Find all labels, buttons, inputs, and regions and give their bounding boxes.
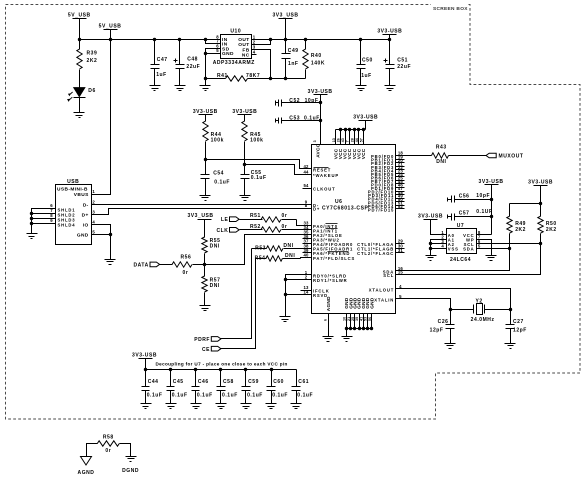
regulator U10 ADP3334ARMZ (221, 35, 252, 59)
wire R44 to U6 (206, 160, 312, 169)
ground U7 WP (486, 255, 497, 257)
U10 pin 3 FB (252, 49, 257, 51)
USB pin 3 D+ (92, 214, 97, 216)
svg-text:31: 31 (398, 248, 404, 253)
capacitor C26 12pF (450, 310, 452, 325)
svg-text:SCREEN BOX: SCREEN BOX (433, 6, 468, 12)
U6 GND pin (371, 314, 373, 329)
U6 pin 49 PD4/FD12 (396, 198, 405, 200)
ground under C54 (200, 195, 211, 197)
capacitor C50 1uF (360, 40, 362, 65)
USB pin 6 SHLD1 (51, 208, 56, 210)
svg-text:DATA: DATA (133, 263, 148, 269)
svg-text:R52: R52 (250, 224, 261, 230)
U6 pin 38 PA5/FIFOADR1 (303, 248, 312, 250)
svg-text:2K2: 2K2 (87, 58, 98, 64)
wire D- to U6 (97, 204, 312, 206)
svg-text:PD7/FD15: PD7/FD15 (368, 207, 394, 212)
svg-text:3V3-USB: 3V3-USB (377, 28, 402, 34)
svg-text:C57: C57 (459, 210, 470, 216)
IC U7 24LC64 (447, 229, 477, 254)
ground under USB (105, 259, 116, 261)
svg-text:5: 5 (216, 48, 219, 53)
wire shields to ground (32, 209, 51, 234)
svg-text:0.1uF: 0.1uF (247, 392, 263, 398)
wire U7 WP to ground (482, 240, 492, 256)
capacitor C47 1uF (154, 40, 156, 65)
svg-text:C50: C50 (362, 58, 373, 64)
capacitor C54 0.1uF (205, 160, 207, 175)
ground under C47 (150, 85, 161, 87)
svg-text:AGND: AGND (326, 296, 331, 311)
svg-text:DNI: DNI (210, 243, 220, 249)
U6 pin 25 PB7/FD7 (396, 180, 405, 182)
svg-text:DNI: DNI (283, 243, 293, 249)
svg-text:U10: U10 (230, 29, 241, 35)
svg-text:GND: GND (222, 51, 234, 57)
ground under U6 GND pins (342, 336, 353, 338)
svg-text:26: 26 (337, 138, 341, 142)
ground under C59 (241, 403, 252, 405)
U6 GND pin (350, 314, 352, 329)
svg-text:C61: C61 (298, 379, 309, 385)
U6 pin 35 PA2/*SLOE (303, 234, 312, 236)
svg-text:VSS: VSS (448, 247, 459, 252)
U6 pin 21 PB3/FD3 (396, 166, 405, 168)
resistor R55 DNI (204, 220, 206, 238)
U10 pin 1 OUT (252, 39, 257, 41)
capacitor C49 1nF (285, 40, 287, 54)
node FB junctions (269, 77, 272, 80)
svg-text:FB: FB (242, 47, 249, 53)
svg-text:XTALIN: XTALIN (374, 297, 394, 302)
resistor R43 DNI (396, 155, 432, 157)
LED D6 (74, 88, 85, 97)
svg-text:DNI: DNI (436, 159, 446, 165)
svg-text:GND: GND (369, 297, 374, 309)
svg-text:D+: D+ (313, 207, 320, 212)
svg-text:C52: C52 (289, 98, 300, 104)
svg-text:0.1uF: 0.1uF (222, 392, 238, 398)
svg-text:R40: R40 (311, 53, 322, 59)
svg-text:4: 4 (253, 50, 256, 55)
ground under C50 (356, 85, 367, 87)
ground shields (27, 233, 38, 235)
U6 pin 31 CTL2/*FLAGC (396, 252, 405, 254)
svg-text:U6: U6 (335, 199, 343, 205)
U6 pin 18 PB0/FD0 (396, 155, 405, 157)
svg-text:140K: 140K (311, 61, 325, 67)
svg-text:DNI: DNI (210, 283, 220, 289)
U6 GND pin (359, 314, 361, 329)
svg-text:Decoupling for U7 - place one: Decoupling for U7 - place one close to e… (156, 361, 288, 366)
svg-text:CLK: CLK (216, 228, 228, 234)
ground under C46 (191, 403, 202, 405)
wire VBUS to 5V rail (97, 40, 111, 195)
ground under C51 (385, 85, 396, 87)
svg-text:2K2: 2K2 (515, 227, 526, 233)
wire IO to GND (97, 225, 111, 235)
svg-text:3V3-USB: 3V3-USB (132, 352, 157, 358)
wire U10 FB to divider (257, 50, 271, 79)
svg-text:C45: C45 (173, 379, 184, 385)
U6 pin 51 PD6/FD14 (396, 205, 405, 207)
svg-text:3V3_USB: 3V3_USB (187, 213, 213, 219)
ground under C27 (505, 343, 516, 345)
U6 pin 45 PD0/FD8 (396, 183, 405, 185)
USB pin 8 SHLD3 (51, 218, 56, 220)
capacitor C55 0.1uF (244, 165, 246, 175)
svg-text:Y2: Y2 (475, 298, 482, 304)
U6 pin 13 IFCLK (301, 290, 312, 292)
svg-text:3V3-USB: 3V3-USB (528, 180, 553, 186)
U6 GND pin (354, 314, 356, 329)
overline PKTEND (328, 251, 349, 253)
svg-text:C58: C58 (223, 379, 234, 385)
svg-text:R56: R56 (181, 254, 192, 260)
U7 pin 1 A0 (441, 234, 447, 236)
svg-text:C56: C56 (459, 193, 470, 199)
svg-text:0.1uF: 0.1uF (172, 392, 188, 398)
resistor R57 DNI (204, 265, 206, 277)
svg-text:C51: C51 (397, 58, 408, 64)
svg-text:D+: D+ (82, 213, 89, 219)
svg-text:*WAKEUP: *WAKEUP (313, 173, 339, 178)
ground under D6 (74, 112, 85, 114)
U7 pin 3 A2 (441, 243, 447, 245)
svg-text:D6: D6 (88, 88, 96, 94)
svg-text:C48: C48 (187, 56, 198, 62)
svg-text:C44: C44 (148, 379, 159, 385)
svg-text:57: 57 (360, 138, 364, 142)
resistor R56 0r (160, 264, 173, 266)
U6 pin 48 PD3/FD11 (396, 194, 405, 196)
U6 pin 54 CLKOUT (303, 188, 312, 190)
USB pin 5 GND (92, 234, 97, 236)
wire R54 to PA7 (301, 258, 312, 259)
capacitor C61 0.1uF (296, 370, 298, 387)
node R44 junction (204, 158, 207, 161)
U6 pin 52 PD7/FD15 (396, 208, 405, 210)
wire VCC bus (336, 129, 366, 131)
svg-text:22uF: 22uF (397, 64, 411, 70)
DGND ground symbol (126, 456, 137, 458)
U10 pin 5 GND (216, 53, 221, 55)
ground under C60 (266, 403, 277, 405)
U6 VCC pin (363, 130, 365, 145)
svg-text:14: 14 (303, 290, 309, 295)
resistor R39 2K2 (79, 40, 81, 50)
ground under C58 (216, 403, 227, 405)
svg-text:9: 9 (50, 218, 53, 223)
svg-text:CY7C68013-CSP: CY7C68013-CSP (322, 205, 368, 211)
svg-text:R51: R51 (250, 213, 261, 219)
resistor R41 78K7 (206, 78, 226, 80)
connector MUXOUT (486, 153, 496, 158)
svg-text:XTALOUT: XTALOUT (369, 288, 394, 293)
resistor R44 100k (203, 121, 208, 141)
U6 pin 30 CTL1/*FLAGB (396, 248, 405, 250)
node DATA junction (203, 263, 206, 266)
svg-text:0.1uF: 0.1uF (251, 175, 267, 181)
svg-text:3: 3 (313, 140, 317, 142)
USB pin 7 SHLD2 (51, 213, 56, 215)
svg-text:C59: C59 (248, 379, 259, 385)
svg-text:3V3_USB: 3V3_USB (272, 13, 298, 19)
node rail junctions (78, 38, 81, 41)
ground under R57 (200, 305, 211, 307)
U6 VCC pin (354, 130, 356, 145)
U6 VCC pin (358, 130, 360, 145)
capacitor C56 10pF (447, 198, 449, 202)
resistor R45 100k (242, 121, 247, 141)
svg-text:GND: GND (77, 232, 89, 238)
USB pin 1 VBUS (92, 194, 97, 196)
U6 pin 24 PB6/FD6 (396, 176, 405, 178)
overline INT1 (326, 228, 338, 230)
svg-text:R41: R41 (217, 73, 228, 79)
svg-text:CLKOUT: CLKOUT (313, 187, 336, 192)
svg-text:0r: 0r (282, 224, 288, 230)
svg-text:C54: C54 (213, 170, 224, 176)
svg-text:IO: IO (83, 222, 89, 228)
U6 pin 44 *WAKEUP (303, 174, 312, 176)
U6 VCC pin (335, 130, 337, 145)
svg-text:12pF: 12pF (513, 327, 527, 333)
svg-text:2: 2 (305, 274, 308, 279)
svg-text:C60: C60 (273, 379, 284, 385)
svg-text:13: 13 (332, 138, 336, 142)
wire 5V_USB2 to rail (110, 30, 112, 40)
capacitor C51 22uF polarized (389, 40, 391, 65)
svg-text:AGND: AGND (78, 470, 95, 476)
capacitor C53 0.1uF (275, 119, 277, 123)
ground RDY net (280, 316, 291, 318)
overline INT0 (326, 223, 338, 225)
svg-text:0r: 0r (282, 213, 288, 219)
U6 VCC pin (345, 130, 347, 145)
U6 GND pin (363, 314, 365, 329)
svg-text:0r: 0r (105, 448, 111, 454)
svg-text:RESET: RESET (313, 167, 331, 172)
USB pin 2 D- (92, 204, 97, 206)
svg-text:C26: C26 (438, 319, 449, 325)
svg-text:0.1uF: 0.1uF (197, 392, 213, 398)
svg-text:R43: R43 (436, 145, 447, 151)
svg-text:56: 56 (368, 317, 372, 321)
svg-text:MUXOUT: MUXOUT (499, 154, 524, 160)
U6 VCC pin (349, 130, 351, 145)
U6 pin 50 PD5/FD13 (396, 201, 405, 203)
svg-text:1uF: 1uF (361, 73, 372, 79)
svg-text:C49: C49 (288, 48, 299, 54)
svg-text:10pF: 10pF (476, 193, 490, 199)
svg-text:USB-MINI-B: USB-MINI-B (57, 186, 88, 192)
capacitor C46 0.1uF (194, 368, 197, 371)
svg-text:AVCC: AVCC (316, 143, 321, 157)
svg-text:R39: R39 (87, 51, 98, 57)
wire 3V3 to U7 VCC (491, 185, 493, 235)
ground U7 address pins (426, 255, 437, 257)
wire D+ to U6 (97, 209, 312, 215)
svg-text:44: 44 (355, 138, 359, 142)
capacitor C52 10pF (275, 101, 277, 106)
capacitor C59 0.1uF (244, 368, 247, 371)
U6 pin 19 PB1/FD1 (396, 159, 405, 161)
svg-text:PDRF: PDRF (194, 337, 210, 343)
svg-text:RDY1/*SLWR: RDY1/*SLWR (313, 278, 348, 283)
svg-text:U7: U7 (457, 223, 465, 229)
svg-text:DNI: DNI (285, 253, 295, 259)
svg-text:78K7: 78K7 (246, 73, 260, 79)
U6 pin 23 PB5/FD5 (396, 173, 405, 175)
wire U10 SD+GND to ground (206, 49, 216, 86)
svg-text:D-: D- (83, 203, 89, 209)
svg-text:0.1uF: 0.1uF (304, 116, 320, 122)
svg-text:VBUS: VBUS (74, 192, 89, 198)
svg-text:40: 40 (303, 252, 309, 257)
svg-text:DGND: DGND (122, 468, 139, 474)
wire PDRF to R53 (221, 249, 252, 339)
U7 pin 5 SDA (477, 248, 482, 250)
U10 pin 4 NC (252, 54, 257, 56)
ground under C55 (240, 195, 251, 197)
U6 pin 47 PD2/FD10 (396, 191, 405, 193)
svg-text:6: 6 (323, 319, 327, 321)
svg-text:100k: 100k (211, 138, 224, 144)
svg-text:R58: R58 (103, 435, 114, 441)
U6 pin 46 PD1/FD9 (396, 187, 405, 189)
svg-text:22uF: 22uF (186, 64, 200, 70)
svg-text:24.0MHz: 24.0MHz (471, 317, 495, 323)
svg-text:C47: C47 (157, 57, 168, 63)
U6 GND pin (367, 314, 369, 329)
wire GND bus to ground (346, 329, 348, 337)
svg-text:12pF: 12pF (430, 327, 444, 333)
wire U10 OUT2 to OUT1 (257, 40, 271, 45)
U6 pin 20 PB2/FD2 (396, 162, 405, 164)
svg-text:VCC: VCC (361, 148, 366, 159)
wire 3V3 to A0 (431, 220, 441, 235)
wire CE to R54 (221, 259, 256, 349)
svg-text:54: 54 (303, 183, 309, 188)
svg-text:5: 5 (478, 243, 481, 248)
crystal Y2 24.0MHz (451, 309, 474, 311)
resistor R49 2K2 (509, 204, 511, 217)
U6 pin 42 RESET (303, 168, 312, 170)
wire SCL net (396, 244, 541, 275)
USB pin 4 IO (92, 224, 97, 226)
svg-text:3V3-USB: 3V3-USB (308, 89, 333, 95)
wire XTALIN (396, 299, 451, 310)
svg-text:10pF: 10pF (305, 98, 319, 104)
svg-text:LE: LE (221, 217, 229, 223)
capacitor C27 12pF (510, 310, 512, 325)
wire RDY0 RDY1 RSVD to ground (286, 275, 312, 317)
U10 pin 8 IN (216, 39, 221, 41)
svg-text:2K2: 2K2 (546, 227, 557, 233)
AGND symbol (81, 457, 92, 466)
svg-text:0r: 0r (183, 270, 189, 276)
svg-text:0.1uF: 0.1uF (297, 392, 313, 398)
svg-text:0.1uF: 0.1uF (272, 392, 288, 398)
svg-text:3V3-USB: 3V3-USB (353, 114, 378, 120)
svg-text:NC: NC (242, 52, 250, 58)
U6 GND pin (346, 314, 348, 329)
svg-text:0.1uF: 0.1uF (147, 392, 163, 398)
svg-text:24LC64: 24LC64 (450, 257, 471, 263)
svg-text:3V3-USB: 3V3-USB (418, 214, 443, 220)
svg-text:SHLD4: SHLD4 (58, 222, 76, 227)
resistor R51 0r (240, 219, 263, 221)
wire pullup tops (510, 203, 541, 205)
svg-text:43: 43 (341, 138, 345, 142)
svg-text:1uF: 1uF (156, 72, 167, 78)
ground under C61 (291, 403, 302, 405)
U7 pin 7 WP (477, 239, 482, 241)
ground under C26 (445, 343, 456, 345)
svg-text:ADP3334ARMZ: ADP3334ARMZ (213, 60, 255, 66)
wire 5V_USB to rail (79, 19, 81, 40)
U6 pin 29 CTL0/*FLAGA (396, 243, 405, 245)
ground AGND pin (323, 336, 334, 338)
wire 5V rail (80, 39, 216, 41)
svg-text:C27: C27 (513, 319, 524, 325)
U7 pin 6 SCL (477, 243, 482, 245)
wire decoupling bus (146, 369, 297, 371)
svg-text:SCL: SCL (383, 273, 394, 278)
screen box dashed border (6, 4, 432, 6)
U6 pin 37 PA4/FIFOADR0 (303, 243, 312, 245)
svg-text:C53: C53 (289, 116, 300, 122)
U10 pin 2 OUT (252, 44, 257, 46)
node R45 junction (243, 163, 246, 166)
wire 3V3 output rail (257, 39, 390, 41)
capacitor C48 22uF polarized (179, 40, 181, 65)
svg-text:OUT: OUT (238, 42, 249, 48)
U6 pin 39 PA6/*PKTEND (303, 252, 312, 254)
capacitor C45 0.1uF (169, 368, 172, 371)
svg-text:5V_USB: 5V_USB (68, 13, 91, 19)
ground under C44 (141, 403, 152, 405)
svg-text:PA7/*FLD/SLCS: PA7/*FLD/SLCS (313, 256, 355, 261)
svg-text:0.1UF: 0.1UF (476, 209, 492, 215)
capacitor C44 0.1uF (144, 368, 147, 371)
resistor R58 0r (87, 444, 98, 457)
U6 pin 22 PB4/FD4 (396, 169, 405, 171)
svg-text:0.1uF: 0.1uF (214, 180, 230, 186)
wire A1 A2 VSS to ground (431, 240, 441, 256)
wire SDA net (396, 249, 510, 271)
svg-text:CTL2/*FLAGC: CTL2/*FLAGC (357, 251, 394, 256)
wire R51 to PA0 (297, 220, 312, 226)
U6 pin 34 PA1/INT1 (303, 229, 312, 231)
wire LED to ground (79, 98, 81, 113)
svg-text:C46: C46 (198, 379, 209, 385)
U7 pin 4 VSS (441, 248, 447, 250)
svg-text:100k: 100k (250, 138, 263, 144)
U6 pin 36 PA3/*WU2 (303, 238, 312, 240)
svg-text:SDA: SDA (463, 247, 474, 252)
U6 VCC pin (340, 130, 342, 145)
resistor R50 2K2 (540, 186, 542, 217)
svg-text:1nF: 1nF (288, 61, 299, 67)
wire XTALOUT (396, 289, 511, 310)
wire 3V3 to AVCC (320, 95, 322, 145)
capacitor C58 0.1uF (219, 368, 222, 371)
U7 pin 8 VCC (477, 234, 482, 236)
ground under U10 (200, 85, 211, 87)
